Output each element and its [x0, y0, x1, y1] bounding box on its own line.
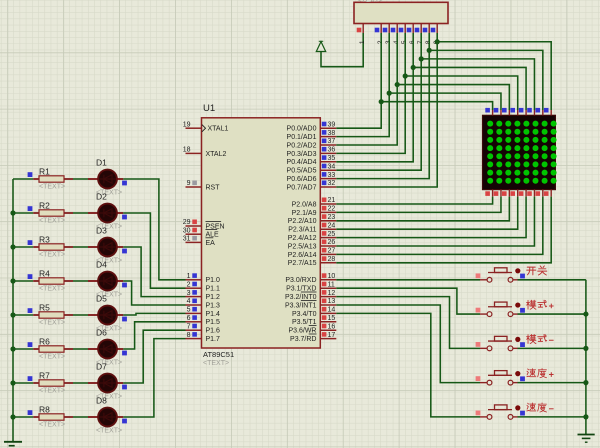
value label RP1 (clipped) — [357, 0, 383, 4]
label D1 — [96, 158, 107, 168]
wire trunk to R6 — [13, 348, 33, 350]
svg-text:18: 18 — [183, 147, 191, 154]
wire button 4 to right trunk — [518, 382, 586, 384]
value label R6 <TEXT> — [39, 354, 65, 361]
pin 26 P2.5 — [288, 239, 337, 250]
pin 34 P0.5 — [287, 163, 337, 174]
svg-text:U1: U1 — [203, 103, 215, 114]
svg-text:P2.1/A9: P2.1/A9 — [292, 210, 317, 217]
wire button 5 to right trunk — [518, 416, 586, 418]
junction bus column 5 — [411, 65, 416, 70]
svg-text:D7: D7 — [96, 362, 107, 372]
wire RP1 pin 4 to P0.2 — [336, 33, 397, 145]
label D8 — [96, 396, 107, 406]
svg-text:2: 2 — [187, 281, 191, 288]
op... microcontroller U1 AT89C51 body — [202, 118, 321, 348]
push button SW1 — [476, 268, 525, 282]
wire R8 to D8 — [73, 416, 88, 418]
svg-text:32: 32 — [328, 180, 336, 187]
label D2 — [96, 192, 107, 202]
LED D6 — [88, 340, 123, 359]
svg-text:12: 12 — [328, 290, 336, 297]
wire matrix column 7 to P2.6 — [336, 197, 543, 255]
wire D8 to P1.7 — [123, 339, 185, 417]
node D4 right pin indicator — [122, 283, 127, 288]
svg-text:EA: EA — [206, 240, 216, 247]
svg-text:P1.0: P1.0 — [206, 277, 221, 284]
label R2 — [39, 201, 50, 211]
svg-text:4: 4 — [187, 298, 191, 305]
pin 12 P3.2 — [285, 290, 336, 301]
label R4 — [39, 269, 50, 279]
wire button 1 to right trunk — [518, 279, 586, 281]
wire P3.4 feed to button 5 — [336, 313, 480, 417]
svg-text:7: 7 — [187, 323, 191, 330]
svg-text:P0.7/AD7: P0.7/AD7 — [287, 184, 317, 191]
junction left trunk row 6 — [10, 346, 15, 351]
resistor R6 — [33, 346, 73, 352]
svg-text:P3.3/INT1: P3.3/INT1 — [285, 302, 317, 309]
node D6 right pin indicator — [122, 351, 127, 356]
matrix top pin 1 — [485, 108, 492, 115]
wire P3.3 feed to button 4 — [336, 305, 480, 383]
wire RP1 pin 9 to P0.7 — [336, 33, 437, 187]
svg-text:1: 1 — [359, 40, 366, 44]
pin 15 P3.5 — [292, 315, 336, 326]
pin 32 P0.7 — [287, 180, 337, 191]
value label D4 <TEXT> — [96, 292, 122, 299]
svg-text:29: 29 — [183, 219, 191, 226]
svg-text:P3.5/T1: P3.5/T1 — [292, 319, 317, 326]
junction bus column 2 — [387, 91, 392, 96]
matrix bottom pin 1 — [485, 190, 492, 197]
svg-text:13: 13 — [328, 298, 336, 305]
wire D7 to P1.6 — [123, 330, 185, 383]
svg-text:16: 16 — [328, 323, 336, 330]
svg-text:P3.6/WR: P3.6/WR — [288, 328, 316, 335]
svg-text:P0.1/AD1: P0.1/AD1 — [287, 134, 317, 141]
svg-text:39: 39 — [328, 121, 336, 128]
label D3 — [96, 226, 107, 236]
matrix bottom pin 7 — [536, 190, 543, 197]
pin 6 P1.5 — [186, 315, 221, 326]
svg-text:P1.7: P1.7 — [206, 336, 221, 343]
svg-text:36: 36 — [328, 147, 336, 154]
junction left trunk row 3 — [10, 244, 15, 249]
junction right trunk button 3 — [583, 346, 588, 351]
label R1 — [39, 167, 50, 177]
wire R6 to D6 — [73, 348, 88, 350]
wire D4 to P1.3 — [123, 281, 185, 305]
LED D1 — [88, 170, 123, 189]
wire trunk to R3 — [13, 246, 33, 248]
wire R4 to D4 — [73, 280, 88, 282]
pin 1 RP1 — [357, 24, 367, 45]
pin 13 P3.3 — [285, 298, 336, 309]
svg-text:P2.4/A12: P2.4/A12 — [288, 235, 317, 242]
label R3 — [39, 235, 50, 245]
label button 5 — [527, 403, 554, 412]
wire D1 to P1.0 — [123, 179, 185, 280]
wire RP1 pin 6 to P0.4 — [336, 33, 413, 162]
wire matrix column 6 to P2.5 — [336, 197, 534, 246]
LED D7 — [88, 374, 123, 393]
svg-text:XTAL1: XTAL1 — [208, 126, 229, 133]
svg-text:37: 37 — [328, 138, 336, 145]
pin 1 P1.0 — [186, 273, 221, 284]
wire bus branch to matrix column 3 — [397, 85, 509, 110]
wire P3.2 feed to button 3 — [336, 297, 480, 349]
svg-text:R4: R4 — [39, 269, 50, 279]
wire bus branch to matrix column 7 — [429, 50, 543, 110]
svg-text:D2: D2 — [96, 192, 107, 202]
node D8 right pin indicator — [122, 419, 127, 424]
svg-text:P2.0/A8: P2.0/A8 — [292, 201, 317, 208]
pin 4 RP1 — [391, 24, 401, 45]
pin 38 P0.1 — [287, 130, 337, 141]
svg-text:10: 10 — [328, 273, 336, 280]
matrix bottom pin 2 — [494, 190, 501, 197]
svg-text:P0.4/AD4: P0.4/AD4 — [287, 159, 317, 166]
svg-text:34: 34 — [328, 163, 336, 170]
svg-text:<TEXT>: <TEXT> — [39, 320, 65, 327]
resistor R2 — [33, 210, 73, 216]
svg-text:D4: D4 — [96, 260, 107, 270]
pin 4 P1.3 — [186, 298, 221, 309]
LED D4 — [88, 272, 123, 291]
node D3 right pin indicator — [122, 249, 127, 254]
label button 4 — [527, 369, 554, 378]
ground left — [4, 442, 22, 448]
svg-text:28: 28 — [328, 256, 336, 263]
svg-text:38: 38 — [328, 130, 336, 137]
svg-text:P3.2/INT0: P3.2/INT0 — [285, 294, 317, 301]
wire P3.0 feed to button 1 — [336, 279, 480, 281]
svg-text:22: 22 — [328, 206, 336, 213]
value label U1 <TEXT> — [203, 360, 229, 367]
value label R3 <TEXT> — [39, 252, 65, 259]
node D7 right pin indicator — [122, 385, 127, 390]
matrix top pin 2 — [494, 108, 501, 115]
value label D2 <TEXT> — [96, 224, 122, 231]
matrix top pin 7 — [536, 108, 543, 115]
wire R3 to D3 — [73, 246, 88, 248]
svg-text:D5: D5 — [96, 294, 107, 304]
wire trunk to R8 — [13, 416, 33, 418]
pin 16 P3.6 — [288, 323, 336, 334]
junction bus column 6 — [419, 56, 424, 61]
svg-text:P0.0/AD0: P0.0/AD0 — [287, 126, 317, 133]
value label D8 <TEXT> — [96, 428, 122, 435]
label R7 — [39, 371, 50, 381]
svg-text:6: 6 — [187, 315, 191, 322]
pin 37 P0.2 — [287, 138, 337, 149]
value label D6 <TEXT> — [96, 360, 122, 367]
svg-text:<TEXT>: <TEXT> — [96, 428, 122, 435]
wire RP1 pin 5 to P0.3 — [336, 33, 405, 153]
pin 33 P0.6 — [287, 172, 337, 183]
svg-text:15: 15 — [328, 315, 336, 322]
svg-text:P2.6/A14: P2.6/A14 — [288, 252, 317, 259]
svg-text:<TEXT>: <TEXT> — [39, 252, 65, 259]
pin 21 P2.0 — [292, 197, 337, 208]
matrix top pin 8 — [544, 108, 551, 115]
svg-text:23: 23 — [328, 214, 336, 221]
matrix bottom pin 3 — [502, 190, 509, 197]
push button SW2 — [476, 302, 525, 316]
value label R4 <TEXT> — [39, 286, 65, 293]
pin 7 RP1 — [415, 24, 425, 45]
pin 19 XTAL1 — [183, 121, 229, 132]
svg-text:35: 35 — [328, 155, 336, 162]
node R3 left pin indicator — [28, 240, 33, 245]
pin 14 P3.4 — [292, 307, 336, 318]
pin 27 P2.6 — [288, 248, 337, 259]
pin 7 P1.6 — [186, 323, 221, 334]
svg-text:R8: R8 — [39, 405, 50, 415]
wire RP1 pin 3 to P0.1 — [336, 33, 389, 137]
node R4 left pin indicator — [28, 274, 33, 279]
wire matrix column 1 to P2.0 — [336, 197, 492, 204]
svg-text:P1.2: P1.2 — [206, 294, 221, 301]
svg-text:9: 9 — [187, 180, 191, 187]
wire bus branch to matrix column 6 — [421, 59, 534, 110]
wire RP1 pin 7 to P0.5 — [336, 33, 421, 170]
label U1 — [203, 103, 215, 114]
wire RP1 pin 2 to P0.0 — [336, 33, 381, 128]
wire D5 to P1.4 — [123, 313, 185, 315]
value label R2 <TEXT> — [39, 218, 65, 225]
wire trunk to R4 — [13, 280, 33, 282]
node R8 left pin indicator — [28, 410, 33, 415]
LED D8 — [88, 408, 123, 427]
svg-text:17: 17 — [328, 332, 336, 339]
label D7 — [96, 362, 107, 372]
wire bus branch to matrix column 2 — [389, 93, 501, 110]
label button 2 — [527, 300, 554, 309]
wire RP1 pin 8 to P0.6 — [336, 33, 429, 179]
label button 3 — [527, 334, 554, 343]
svg-text:24: 24 — [328, 222, 336, 229]
svg-text:P0.5/AD5: P0.5/AD5 — [287, 168, 317, 175]
pin 29 PSEN — [183, 219, 225, 230]
value label D7 <TEXT> — [96, 394, 122, 401]
wire bus branch to matrix column 4 — [405, 76, 518, 110]
pin 35 P0.4 — [287, 155, 337, 166]
junction left trunk row 8 — [10, 414, 15, 419]
svg-text:5: 5 — [187, 307, 191, 314]
pin 31 EA — [183, 236, 215, 247]
wire bus branch to matrix column 5 — [413, 67, 526, 110]
wire right ground trunk — [585, 280, 587, 435]
pin 8 RP1 — [423, 24, 433, 45]
junction bus column 7 — [427, 48, 432, 53]
wire button 3 to right trunk — [518, 347, 586, 349]
junction bus column 3 — [395, 82, 400, 87]
svg-text:P0.3/AD3: P0.3/AD3 — [287, 151, 317, 158]
svg-text:<TEXT>: <TEXT> — [39, 388, 65, 395]
wire R7 to D7 — [73, 382, 88, 384]
wire button 2 to right trunk — [518, 313, 586, 315]
pin 5 RP1 — [399, 24, 409, 45]
wire R2 to D2 — [73, 212, 88, 214]
svg-text:P1.5: P1.5 — [206, 319, 221, 326]
svg-text:25: 25 — [328, 231, 336, 238]
wire trunk to R7 — [13, 382, 33, 384]
svg-text:D1: D1 — [96, 158, 107, 168]
junction left trunk row 2 — [10, 210, 15, 215]
svg-text:D3: D3 — [96, 226, 107, 236]
label button 1 — [527, 266, 547, 275]
pin 5 P1.4 — [186, 307, 221, 318]
svg-text:P2.3/A11: P2.3/A11 — [288, 227, 316, 234]
svg-text:P0.2/AD2: P0.2/AD2 — [287, 142, 317, 149]
LED D5 — [88, 306, 123, 325]
wire D6 to P1.5 — [123, 322, 185, 349]
svg-text:P2.7/A15: P2.7/A15 — [288, 260, 317, 267]
wire bus branch to matrix column 8 — [437, 42, 551, 110]
svg-text:P3.4/T0: P3.4/T0 — [292, 311, 317, 318]
svg-text:R3: R3 — [39, 235, 50, 245]
wire trunk to R2 — [13, 212, 33, 214]
wire matrix column 4 to P2.3 — [336, 197, 517, 230]
pin 17 P3.7 — [290, 332, 336, 343]
value label R7 <TEXT> — [39, 388, 65, 395]
svg-text:AT89C51: AT89C51 — [203, 350, 234, 359]
svg-text:P1.4: P1.4 — [206, 311, 221, 318]
pin 36 P0.3 — [287, 147, 337, 158]
label D6 — [96, 328, 107, 338]
pin 3 RP1 — [383, 24, 393, 45]
push button SW5 — [476, 405, 525, 419]
led matrix body — [483, 115, 557, 189]
pin 2 P1.1 — [186, 281, 221, 292]
wire trunk to R1 — [13, 178, 33, 180]
value label D3 <TEXT> — [96, 258, 122, 265]
svg-text:27: 27 — [328, 248, 336, 255]
wire matrix column 3 to P2.2 — [336, 197, 509, 221]
value label R1 <TEXT> — [39, 184, 65, 191]
junction right trunk button 5 — [583, 414, 588, 419]
wire P3.1 feed to button 2 — [336, 288, 480, 314]
svg-text:P1.3: P1.3 — [206, 302, 221, 309]
svg-text:21: 21 — [328, 197, 336, 204]
matrix bottom pin 5 — [519, 190, 526, 197]
matrix top pin 4 — [510, 108, 517, 115]
push button SW4 — [476, 371, 525, 385]
wire D3 to P1.2 — [123, 247, 185, 297]
wire matrix column 5 to P2.4 — [336, 197, 526, 238]
wire matrix column 8 to P2.7 — [336, 197, 551, 263]
junction bus column 4 — [403, 73, 408, 78]
junction left trunk row 7 — [10, 380, 15, 385]
wire bus branch to matrix column 1 — [381, 102, 492, 110]
wire left ground trunk — [12, 179, 14, 442]
label R8 — [39, 405, 50, 415]
label R6 — [39, 337, 50, 347]
label D5 — [96, 294, 107, 304]
resistor R4 — [33, 278, 73, 284]
wire R1 to D1 — [73, 178, 88, 180]
node R2 left pin indicator — [28, 206, 33, 211]
pin 23 P2.2 — [288, 214, 337, 225]
pin 9 RP1 — [431, 24, 441, 45]
svg-text:1: 1 — [187, 273, 191, 280]
pin 30 ALE — [183, 227, 219, 238]
svg-text:<TEXT>: <TEXT> — [203, 360, 229, 367]
svg-text:R2: R2 — [39, 201, 50, 211]
svg-text:<TEXT>: <TEXT> — [357, 0, 383, 4]
node D2 right pin indicator — [122, 215, 127, 220]
pin 6 RP1 — [407, 24, 417, 45]
matrix bottom pin 4 — [510, 190, 517, 197]
svg-text:<TEXT>: <TEXT> — [39, 218, 65, 225]
ground right — [578, 435, 595, 443]
svg-text:XTAL2: XTAL2 — [206, 151, 227, 158]
pin 10 P3.0 — [285, 273, 336, 284]
label AT89C51 — [203, 350, 234, 359]
pin 9 RST — [186, 180, 221, 191]
value label R8 <TEXT> — [39, 422, 65, 429]
resistor R5 — [33, 312, 73, 318]
matrix bottom pin 8 — [544, 190, 551, 197]
svg-text:P1.1: P1.1 — [206, 286, 221, 293]
pin 11 P3.1 — [286, 281, 336, 292]
junction bus column 1 — [379, 99, 384, 104]
pin 2 RP1 — [375, 24, 385, 45]
svg-text:14: 14 — [328, 307, 336, 314]
junction left trunk row 4 — [10, 278, 15, 283]
node R7 left pin indicator — [28, 376, 33, 381]
node R6 left pin indicator — [28, 342, 33, 347]
matrix bottom pin 6 — [527, 190, 534, 197]
value label D5 <TEXT> — [96, 326, 122, 333]
svg-text:31: 31 — [183, 236, 191, 243]
svg-text:D6: D6 — [96, 328, 107, 338]
pin 8 P1.7 — [186, 332, 221, 343]
wire D2 to P1.1 — [123, 213, 185, 288]
wire R5 to D5 — [73, 314, 88, 316]
push button SW3 — [476, 336, 525, 350]
svg-text:19: 19 — [183, 121, 191, 128]
wire VCC to RP1 pin1 — [321, 33, 363, 67]
svg-text:P1.6: P1.6 — [206, 328, 221, 335]
svg-text:R7: R7 — [39, 371, 50, 381]
resistor R1 — [33, 176, 73, 182]
svg-text:<TEXT>: <TEXT> — [39, 354, 65, 361]
junction bus column 8 — [435, 39, 440, 44]
node R1 left pin indicator — [28, 172, 33, 177]
pin 25 P2.4 — [288, 231, 337, 242]
svg-text:33: 33 — [328, 172, 336, 179]
resistor R7 — [33, 380, 73, 386]
svg-text:P2.2/A10: P2.2/A10 — [288, 218, 317, 225]
svg-text:P3.0/RXD: P3.0/RXD — [285, 277, 316, 284]
svg-text:P3.7/RD: P3.7/RD — [290, 336, 316, 343]
resistor R8 — [33, 414, 73, 420]
svg-text:D8: D8 — [96, 396, 107, 406]
svg-text:P0.6/AD6: P0.6/AD6 — [287, 176, 317, 183]
junction right trunk button 2 — [583, 311, 588, 316]
svg-text:P3.1/TXD: P3.1/TXD — [286, 286, 316, 293]
resistor R3 — [33, 244, 73, 250]
matrix top pin 3 — [502, 108, 509, 115]
node R5 left pin indicator — [28, 308, 33, 313]
svg-text:11: 11 — [328, 281, 335, 288]
svg-text:<TEXT>: <TEXT> — [39, 184, 65, 191]
svg-text:3: 3 — [187, 290, 191, 297]
svg-text:26: 26 — [328, 239, 336, 246]
